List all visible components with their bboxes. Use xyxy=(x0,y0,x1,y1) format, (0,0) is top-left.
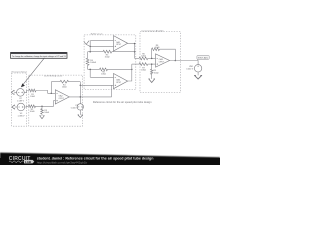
svg-text:0.000 V: 0.000 V xyxy=(186,69,194,71)
svg-text:VOUT_ADC: VOUT_ADC xyxy=(198,57,209,60)
svg-text:OP07: OP07 xyxy=(159,61,165,63)
svg-text:Reference circuit for the air: Reference circuit for the air speed pito… xyxy=(93,100,152,104)
svg-text:100kΩ: 100kΩ xyxy=(90,62,96,64)
svg-text:10kΩ: 10kΩ xyxy=(30,111,35,113)
svg-text:Level Shifting Circuit: Level Shifting Circuit xyxy=(44,75,63,78)
svg-text:Buffer Circuit: Buffer Circuit xyxy=(91,33,103,36)
svg-text:Instrumentation Amplifier: Instrumentation Amplifier xyxy=(142,29,164,32)
svg-text:1.089 V: 1.089 V xyxy=(17,100,25,102)
svg-text:1.086 V: 1.086 V xyxy=(18,115,26,117)
svg-text:10kΩ: 10kΩ xyxy=(154,73,159,75)
svg-text:OP07: OP07 xyxy=(59,98,65,100)
svg-text:OP07: OP07 xyxy=(116,44,122,46)
svg-text:10kΩ: 10kΩ xyxy=(62,87,67,89)
svg-text:10kΩ: 10kΩ xyxy=(30,96,35,98)
svg-text:To change the calibration, cha: To change the calibration, change the in… xyxy=(12,55,66,58)
svg-text:10kΩ: 10kΩ xyxy=(141,56,146,58)
svg-text:http://circuitlab.com/c/pe3ay4: http://circuitlab.com/c/pe3ay442qb1b xyxy=(37,161,88,165)
svg-text:10kΩ: 10kΩ xyxy=(44,112,49,114)
svg-text:LAB: LAB xyxy=(25,160,32,164)
svg-text:10kΩ: 10kΩ xyxy=(141,70,146,72)
svg-text:5.000 V: 5.000 V xyxy=(71,107,79,109)
svg-text:Pressure Sensor: Pressure Sensor xyxy=(12,71,28,74)
svg-text:10kΩ: 10kΩ xyxy=(101,74,106,76)
svg-text:10kΩ: 10kΩ xyxy=(105,56,110,58)
svg-text:10kΩ: 10kΩ xyxy=(155,47,160,49)
svg-text:OP07: OP07 xyxy=(116,82,122,84)
